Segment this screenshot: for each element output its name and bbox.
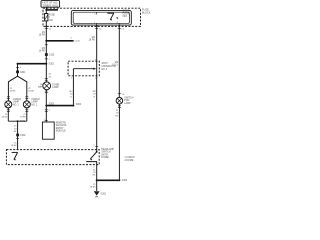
svg-text:BK: BK: [116, 115, 119, 117]
power feed box HOT AT ALL TIMES: [41, 1, 60, 8]
wire dome lamp ground side: [45, 90, 47, 122]
switch contact dot: [117, 17, 118, 18]
svg-text:2 DOME: 2 DOME: [125, 160, 134, 162]
svg-text:DOME: DOME: [123, 11, 130, 13]
wire cargo lamp 2 ground side: [7, 108, 9, 121]
wire splice to left: [18, 63, 47, 65]
headlamp switch dashed box: [6, 150, 99, 165]
svg-text:C1: C1: [122, 29, 126, 31]
svg-text:18 BK: 18 BK: [28, 91, 34, 93]
svg-text:TIMES (M1): TIMES (M1): [43, 4, 59, 7]
connector ticks: [45, 78, 48, 80]
svg-text:ENTRY: ENTRY: [56, 128, 64, 130]
svg-text:YL: YL: [70, 96, 73, 98]
svg-text:CARGO: CARGO: [13, 98, 22, 101]
svg-text:BK: BK: [93, 175, 96, 177]
svg-text:C1: C1: [99, 29, 103, 31]
wire joint connector to dome splice: [72, 76, 74, 106]
wire left branch down: [17, 64, 19, 76]
connector tick: [16, 66, 19, 68]
svg-text:DOME: DOME: [52, 84, 59, 86]
wire dome lamp feed: [45, 64, 47, 82]
connector tick: [45, 58, 48, 60]
svg-text:Z2: Z2: [10, 88, 13, 90]
svg-text:Z2: Z2: [48, 74, 51, 76]
node left end: [17, 63, 19, 65]
connector ticks cargo lamp 1: [25, 97, 28, 99]
node battery junction: [45, 9, 47, 11]
svg-text:(WITH: (WITH: [101, 154, 108, 156]
wire fuse to connector: [45, 21, 47, 33]
svg-text:18 BK: 18 BK: [90, 187, 96, 189]
wire ground bar: [97, 179, 120, 181]
pin 5 stub top: [96, 12, 98, 14]
svg-text:NO. 1: NO. 1: [31, 104, 38, 106]
wire switch output M2: [118, 25, 120, 97]
svg-text:M1: M1: [42, 48, 46, 50]
svg-text:NO. 1: NO. 1: [101, 69, 108, 71]
svg-text:MAP): MAP): [38, 86, 44, 89]
fuse F7: [45, 14, 48, 21]
switch box (fuse block switch): [71, 10, 131, 25]
pin 8 stub bottom: [118, 23, 120, 25]
connector tick C2: [45, 28, 48, 30]
node switch pin: [96, 151, 98, 153]
svg-text:M2: M2: [115, 62, 119, 64]
svg-text:1: 1: [93, 145, 95, 147]
svg-text:C126: C126: [75, 41, 81, 43]
svg-text:DOME): DOME): [101, 157, 109, 159]
svg-text:1 CARGO: 1 CARGO: [125, 156, 136, 159]
svg-text:5: 5: [94, 14, 96, 16]
svg-text:Z1: Z1: [93, 169, 96, 171]
node ground junction: [96, 179, 98, 181]
svg-text:5: 5: [71, 38, 73, 40]
svg-text:18 PK: 18 PK: [89, 40, 96, 42]
svg-text:DOOR: DOOR: [123, 13, 130, 15]
svg-text:18: 18: [14, 128, 17, 130]
wire pod lamp to ground bar: [118, 104, 120, 180]
wire Y split right: [18, 76, 27, 101]
svg-text:NO. 2: NO. 2: [13, 104, 20, 106]
lamp switch pod illumination: [116, 97, 123, 104]
svg-text:CARGO: CARGO: [31, 98, 40, 101]
node fuse output on fuse block edge: [45, 25, 47, 27]
connector C301: [16, 71, 19, 74]
svg-text:SWITCH: SWITCH: [101, 152, 110, 154]
svg-text:(W/: (W/: [40, 84, 44, 86]
connector C302: [16, 134, 19, 137]
svg-text:Z1: Z1: [5, 114, 8, 116]
svg-text:Z2: Z2: [28, 88, 31, 90]
node on fuse block edge: [118, 25, 120, 27]
fuse block dashed box: [43, 8, 141, 26]
svg-text:Z1: Z1: [14, 126, 17, 128]
svg-text:S302: S302: [49, 64, 55, 66]
svg-text:Z1: Z1: [14, 142, 17, 144]
wire merge bar: [8, 120, 27, 122]
node right end: [118, 179, 120, 181]
svg-text:4: 4: [20, 67, 22, 69]
svg-text:SWITCH: SWITCH: [124, 97, 133, 99]
wire down to C100: [45, 33, 47, 64]
node splice S303: [45, 105, 47, 107]
joint connector left leg: [72, 69, 74, 76]
svg-text:POD: POD: [124, 100, 129, 102]
svg-text:2: 2: [93, 166, 95, 168]
svg-text:CONNECTOR: CONNECTOR: [101, 66, 116, 68]
svg-text:LAMP: LAMP: [52, 86, 59, 89]
svg-text:LAMP: LAMP: [124, 102, 131, 105]
svg-text:REMOTE: REMOTE: [56, 122, 66, 124]
svg-text:C302: C302: [20, 135, 26, 137]
svg-text:C301: C301: [20, 72, 26, 74]
svg-text:KEYLESS: KEYLESS: [56, 125, 67, 127]
connector ticks to module: [45, 110, 48, 112]
node right end of splice bar: [72, 105, 74, 107]
svg-text:18 PK: 18 PK: [39, 35, 46, 37]
switch arm right (dome section): [90, 152, 97, 159]
svg-text:HEADLAMP: HEADLAMP: [101, 148, 114, 151]
node on fuse block edge: [96, 25, 98, 27]
wire switch to ground: [96, 165, 98, 181]
svg-text:G301: G301: [101, 194, 107, 196]
svg-text:S300: S300: [122, 180, 128, 182]
connector tick: [16, 138, 19, 140]
lamp cargo lamp no.1: [23, 101, 30, 108]
remote keyless entry module box: [42, 122, 54, 139]
svg-text:M2: M2: [69, 91, 73, 93]
lamp dome lamp: [43, 82, 51, 90]
wire M2 lamp branch connector tick: [118, 93, 121, 95]
wire branch to courtesy lamps: [46, 40, 73, 42]
svg-text:18: 18: [116, 113, 119, 115]
svg-text:JOINT: JOINT: [101, 63, 108, 65]
connector tick: [95, 28, 98, 30]
svg-text:LAMP: LAMP: [13, 101, 20, 104]
joint connector bus arrow: [73, 68, 93, 70]
svg-text:M1: M1: [42, 32, 46, 34]
connector tick: [95, 145, 98, 147]
svg-text:BK: BK: [14, 131, 17, 133]
wire batt feed: [45, 7, 47, 13]
svg-text:10A: 10A: [49, 19, 54, 22]
svg-text:MODULE: MODULE: [56, 131, 66, 133]
svg-text:18: 18: [70, 94, 73, 96]
svg-text:18: 18: [93, 94, 96, 96]
pin 1 stub bottom: [96, 23, 98, 25]
svg-text:OFF: OFF: [123, 16, 128, 18]
svg-text:BLOCK: BLOCK: [142, 11, 151, 14]
svg-text:18 BK: 18 BK: [10, 91, 16, 93]
wire splice bar to joint connector leg: [46, 105, 73, 107]
node splice S301: [17, 120, 19, 122]
svg-text:18: 18: [93, 172, 96, 174]
svg-text:2: 2: [49, 110, 51, 112]
switch fixed contact: [86, 162, 97, 165]
svg-text:18: 18: [48, 76, 51, 78]
lamp cargo lamp no.2: [5, 101, 12, 108]
switch S1 arm: [107, 12, 113, 14]
wire switch output M1: [96, 25, 98, 152]
svg-text:M1: M1: [92, 37, 96, 39]
joint connector dashed box: [68, 61, 99, 76]
svg-text:S304: S304: [76, 104, 82, 106]
svg-text:YL: YL: [93, 96, 96, 98]
connector C100: [45, 53, 48, 56]
svg-text:Z1: Z1: [23, 114, 26, 116]
wire bus stub: [46, 9, 58, 11]
wire Y split left: [8, 76, 17, 101]
svg-text:18 PK: 18 PK: [39, 51, 46, 53]
svg-text:18 BK: 18 BK: [2, 117, 8, 119]
connector tick: [45, 44, 48, 46]
ground G301: [94, 191, 100, 195]
connector ticks cargo lamp 2: [7, 97, 10, 99]
svg-text:Z1: Z1: [93, 184, 96, 186]
svg-text:C100: C100: [49, 55, 55, 57]
wire cargo lamp 1 ground side: [26, 108, 28, 121]
wire splice to connector: [17, 121, 19, 149]
switch arm left (cargo section): [12, 151, 18, 153]
node splice S302: [45, 63, 47, 65]
svg-text:18 BK: 18 BK: [11, 145, 17, 147]
svg-text:18 BK: 18 BK: [20, 117, 26, 119]
node branch junction: [45, 40, 47, 42]
wire down to ground G301: [96, 180, 98, 191]
svg-text:LAMP: LAMP: [31, 101, 38, 104]
svg-text:1: 1: [49, 59, 51, 61]
svg-text:Z1: Z1: [116, 110, 119, 112]
svg-text:C3: C3: [122, 94, 126, 96]
svg-text:M2: M2: [93, 91, 97, 93]
connector tick: [118, 28, 121, 30]
svg-text:S301: S301: [20, 121, 26, 123]
svg-text:C2: C2: [49, 29, 53, 31]
